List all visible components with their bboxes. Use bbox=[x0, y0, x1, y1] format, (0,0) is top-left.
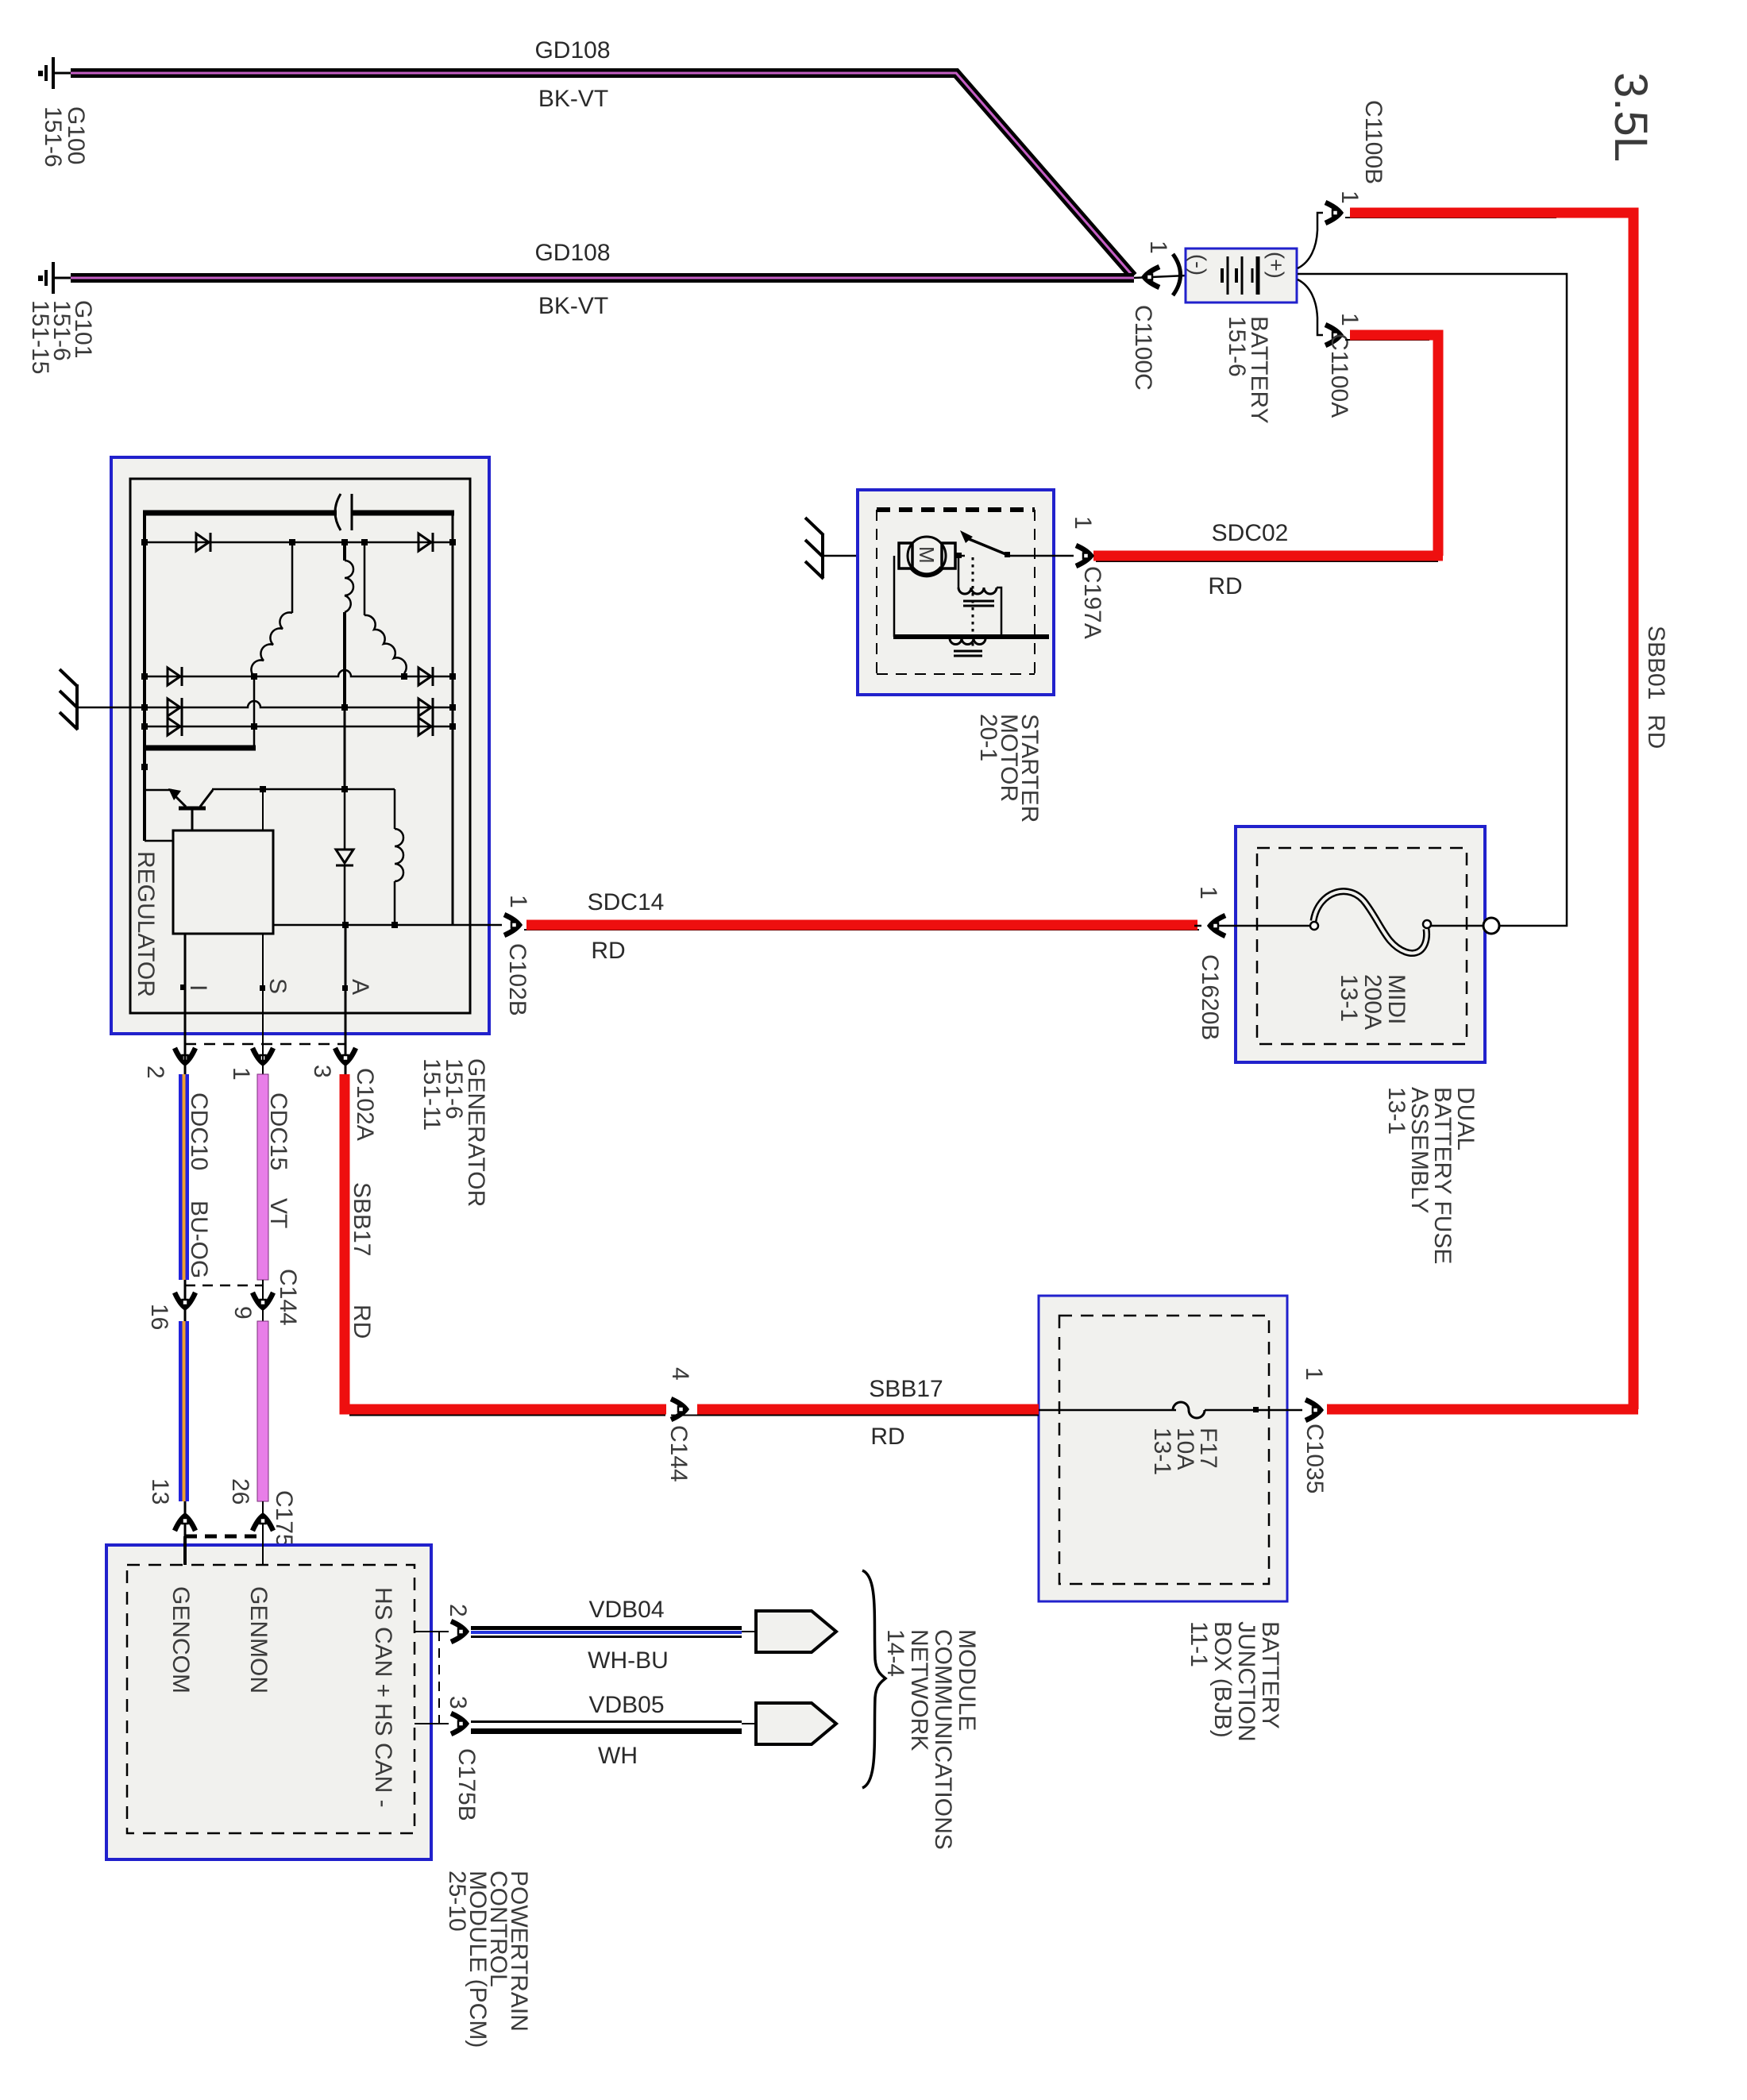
junction dots row2 bbox=[141, 673, 456, 680]
wire SDC14 RD (generator to MIDI) bbox=[524, 925, 1201, 930]
junction node (motor out) bbox=[956, 553, 962, 558]
pin A wire bbox=[345, 925, 347, 1074]
svg-text:CDC10: CDC10 bbox=[186, 1092, 212, 1170]
diode D6 bbox=[418, 698, 433, 717]
diode D3 bbox=[168, 667, 182, 686]
svg-text:VDB05: VDB05 bbox=[588, 1692, 664, 1718]
connector C1100C arrow bbox=[1144, 267, 1159, 287]
PCM inner dashed box bbox=[127, 1565, 415, 1833]
stator row3 wire (hop over neutral) bbox=[146, 701, 453, 707]
svg-text:WH: WH bbox=[598, 1743, 638, 1769]
wire battery+ up to C1100B bbox=[1298, 213, 1323, 268]
svg-text:1: 1 bbox=[1070, 516, 1096, 530]
svg-text:1: 1 bbox=[1336, 313, 1363, 326]
wire GD108 BK-VT (from G101) bbox=[71, 273, 1134, 283]
wire rail to transistor emitter bbox=[145, 789, 172, 792]
MIDI inner dashed box bbox=[1257, 848, 1467, 1044]
fuse F17 10A element bbox=[1039, 1402, 1302, 1418]
svg-text:SBB01: SBB01 bbox=[1643, 626, 1669, 699]
svg-text:C175B: C175B bbox=[453, 1748, 480, 1821]
motor M1 (starter) bbox=[899, 537, 955, 575]
diode D7 bbox=[168, 717, 182, 736]
solenoid switch blade bbox=[960, 530, 1010, 557]
svg-text:C102A: C102A bbox=[352, 1068, 378, 1141]
wire battery+ down to C1100A bbox=[1298, 279, 1323, 335]
regulator box U1 bbox=[173, 830, 273, 934]
svg-text:GD108: GD108 bbox=[534, 37, 610, 64]
svg-text:(+): (+) bbox=[1264, 252, 1288, 279]
svg-text:C1100C: C1100C bbox=[1130, 305, 1156, 391]
junction dots A line bbox=[342, 922, 398, 928]
wire S line (under regulator box) bbox=[262, 789, 264, 1074]
wire regulator output A line bbox=[273, 924, 453, 927]
svg-text:2: 2 bbox=[142, 1065, 168, 1079]
connector C1100B arrow bbox=[1325, 202, 1340, 223]
wire GENCOM stub bbox=[183, 1536, 187, 1565]
connector C102B arrow bbox=[504, 915, 519, 935]
stator winding L2 (center) bbox=[345, 542, 353, 791]
field winding L4 bbox=[395, 789, 403, 925]
connector C175B dashed vertical bbox=[438, 1632, 440, 1724]
svg-text:BK-VT: BK-VT bbox=[538, 293, 608, 319]
svg-text:F1710A13-1: F1710A13-1 bbox=[1149, 1428, 1221, 1475]
wire ground into generator (row3) bbox=[77, 707, 146, 709]
ground G101 bbox=[38, 262, 71, 294]
wire collector line bbox=[212, 788, 395, 791]
connector arrow pin13 (C175E) bbox=[175, 1516, 195, 1531]
generator box bbox=[111, 457, 489, 1034]
wire CDC15 VT segment 2 bbox=[257, 1321, 268, 1536]
svg-text:C1100B: C1100B bbox=[1360, 100, 1386, 184]
diode D9 (field) bbox=[336, 789, 353, 925]
connector arrow pin3 (C175B) bbox=[451, 1713, 466, 1734]
svg-text:RD: RD bbox=[1643, 715, 1669, 749]
wire B+ exit to C102B bbox=[453, 924, 502, 927]
svg-text:2: 2 bbox=[445, 1604, 471, 1617]
starter inner dashed box bbox=[877, 510, 1035, 674]
svg-text:I: I bbox=[185, 984, 211, 991]
wire CDC10 BU-OG segment 2 bbox=[179, 1321, 189, 1536]
ground (starter motor) bbox=[805, 518, 823, 579]
wire RD battery to starter (corner) bbox=[1345, 335, 1438, 556]
wire pin2 (HS CAN +) bbox=[415, 1631, 449, 1632]
stator row1 wire bbox=[145, 541, 453, 544]
stator winding L1 (left) bbox=[251, 542, 292, 676]
PCM box bbox=[106, 1545, 431, 1859]
solenoid hold-in coil bbox=[950, 638, 985, 656]
svg-text:BU-OG: BU-OG bbox=[186, 1200, 212, 1278]
svg-text:C144: C144 bbox=[275, 1269, 301, 1326]
svg-text:RD: RD bbox=[591, 938, 625, 964]
ground G100 bbox=[38, 57, 71, 89]
svg-text:RD: RD bbox=[870, 1424, 904, 1450]
wire CDC10 BU-OG segment 1 bbox=[179, 1048, 189, 1280]
svg-text:26: 26 bbox=[227, 1478, 253, 1505]
solenoid pull-in coil bbox=[958, 556, 1001, 635]
wire to battery negative bbox=[1134, 276, 1186, 278]
connector C1035 arrow bbox=[1305, 1400, 1321, 1420]
svg-text:3.5L: 3.5L bbox=[1605, 72, 1656, 162]
svg-text:SDC14: SDC14 bbox=[588, 889, 665, 915]
svg-text:1: 1 bbox=[228, 1067, 254, 1081]
connector C1100C arc bbox=[1173, 254, 1181, 295]
battery junction box (BJB) bbox=[1039, 1296, 1287, 1601]
junction dots row3 bbox=[141, 704, 456, 711]
svg-text:SDC02: SDC02 bbox=[1212, 520, 1289, 546]
svg-text:(-): (-) bbox=[1186, 254, 1210, 276]
wire VDB04 WH-BU bbox=[471, 1626, 758, 1638]
svg-text:WH-BU: WH-BU bbox=[588, 1647, 669, 1674]
neutral vertical wire bbox=[253, 676, 256, 748]
starter motor box bbox=[858, 490, 1054, 695]
svg-text:RD: RD bbox=[349, 1304, 375, 1339]
svg-text:C197A: C197A bbox=[1079, 566, 1105, 639]
connector arrow pin1 bbox=[253, 1048, 273, 1063]
connector arrow pin9 (C144) bbox=[253, 1293, 273, 1308]
junction dot on rail bbox=[141, 764, 148, 770]
BJB inner dashed box bbox=[1059, 1316, 1269, 1584]
svg-text:3: 3 bbox=[445, 1696, 471, 1709]
wire SBB17 RD (C144 to BJB) bbox=[671, 1409, 1039, 1416]
svg-text:SBB17: SBB17 bbox=[869, 1376, 943, 1402]
MIDI fuse box (dual battery fuse assembly) bbox=[1236, 827, 1485, 1062]
connector C144 pin4 arrow bbox=[671, 1399, 686, 1420]
stator row4 wire bbox=[145, 726, 453, 728]
connector arrow pin26 (C175E) bbox=[253, 1516, 273, 1531]
svg-text:C1620B: C1620B bbox=[1197, 954, 1223, 1040]
svg-text:GD108: GD108 bbox=[534, 240, 610, 266]
battery B1 box bbox=[1186, 249, 1297, 302]
generator inner box bbox=[130, 479, 470, 1013]
generator top bus (thick) with capacitor gap bbox=[143, 511, 454, 516]
svg-text:CDC15: CDC15 bbox=[265, 1092, 291, 1170]
capacitor C (suppression) bbox=[335, 494, 352, 530]
svg-text:A: A bbox=[347, 979, 373, 995]
connector arrow pin2 (C175B) bbox=[451, 1621, 466, 1642]
connector arrow pin2 bbox=[175, 1048, 195, 1063]
svg-text:VDB04: VDB04 bbox=[588, 1597, 664, 1623]
svg-text:M: M bbox=[915, 546, 939, 564]
svg-text:SBB17: SBB17 bbox=[349, 1182, 375, 1256]
wire motor left to bus bbox=[893, 556, 896, 637]
connector arrow pin16 (C144) bbox=[175, 1293, 195, 1308]
svg-text:1: 1 bbox=[1336, 191, 1363, 204]
svg-text:3: 3 bbox=[309, 1065, 335, 1078]
wire rail to regulator bbox=[145, 840, 173, 842]
wire SBB01 RD (battery to BJB) bbox=[1345, 213, 1633, 1409]
svg-text:BK-VT: BK-VT bbox=[538, 86, 608, 112]
svg-text:C1035: C1035 bbox=[1302, 1424, 1328, 1493]
connector C175E bold dashed tie line bbox=[185, 1535, 263, 1539]
svg-text:REGULATOR: REGULATOR bbox=[133, 851, 159, 997]
svg-text:4: 4 bbox=[667, 1367, 693, 1381]
starter bottom bus (thick) bbox=[893, 634, 1049, 639]
svg-text:1: 1 bbox=[1145, 241, 1171, 254]
pin A dot bbox=[342, 985, 348, 991]
connector arrow pin3 (C102A) bbox=[335, 1048, 356, 1063]
network brace bbox=[862, 1570, 885, 1788]
off-page arrow (VDB05) bbox=[756, 1703, 836, 1744]
svg-text:HS CAN +: HS CAN + bbox=[370, 1587, 396, 1697]
wire SBB17 RD (generator C102A down and right) bbox=[345, 1074, 666, 1416]
diode D5 bbox=[168, 698, 182, 717]
connector C1100A arrow bbox=[1325, 325, 1340, 345]
stator row2 wire (hop over center) bbox=[145, 670, 453, 676]
svg-text:MIDI200A13-1: MIDI200A13-1 bbox=[1336, 974, 1410, 1030]
svg-text:GENMON: GENMON bbox=[245, 1586, 272, 1693]
connector C1620B arrow bbox=[1210, 915, 1225, 936]
wire CDC15 VT segment 1 bbox=[257, 1048, 268, 1280]
wire VDB05 WH bbox=[471, 1720, 758, 1734]
svg-text:C102B: C102B bbox=[504, 943, 530, 1016]
svg-text:HS CAN -: HS CAN - bbox=[370, 1703, 396, 1808]
wire SDC02 RD bbox=[1093, 556, 1443, 561]
svg-text:RD: RD bbox=[1208, 573, 1242, 599]
wire RD (C1035 to SBB01) bbox=[1327, 1404, 1638, 1415]
connector C197A arrow bbox=[1076, 545, 1091, 566]
svg-text:C1100A: C1100A bbox=[1326, 333, 1352, 418]
svg-text:G100151-6: G100151-6 bbox=[40, 106, 89, 168]
junction dots collector line bbox=[260, 786, 348, 792]
svg-text:1: 1 bbox=[1301, 1367, 1327, 1381]
pin S wire dot bbox=[180, 984, 186, 990]
svg-text:VT: VT bbox=[265, 1198, 291, 1228]
svg-text:C144: C144 bbox=[665, 1425, 692, 1482]
pin I wire bbox=[184, 934, 187, 1074]
connector C102A dashed tie line bbox=[185, 1043, 345, 1046]
transistor Q1 (regulator output stage) bbox=[168, 788, 213, 830]
diode D1 bbox=[196, 533, 210, 552]
generator bottom bus (thick) bbox=[143, 746, 256, 751]
wire motor to switch bbox=[955, 555, 965, 557]
wire switch to C197A bbox=[1008, 555, 1074, 557]
ground (generator) bbox=[60, 669, 78, 730]
svg-text:9: 9 bbox=[229, 1306, 256, 1320]
svg-text:S: S bbox=[264, 978, 291, 994]
wire GD108 BK-VT (from G100) bbox=[71, 73, 1133, 276]
MIDI output terminal circle bbox=[1483, 918, 1499, 934]
wire GENMON stub bbox=[262, 1536, 264, 1565]
connector C144 dashed tie line bbox=[185, 1285, 263, 1287]
generator left rail bbox=[143, 511, 146, 841]
battery cells bbox=[1222, 256, 1258, 295]
generator B+ right rail bbox=[452, 511, 454, 925]
fuse MIDI 200A element bbox=[1213, 892, 1484, 954]
junction dots row1 bbox=[141, 539, 456, 545]
svg-text:1: 1 bbox=[1195, 886, 1221, 900]
pin S dot bbox=[260, 985, 265, 991]
svg-text:13: 13 bbox=[147, 1478, 173, 1505]
junction dots row4 bbox=[141, 723, 456, 730]
diode D8 bbox=[418, 717, 433, 736]
svg-text:1: 1 bbox=[505, 895, 531, 908]
diode D4 bbox=[418, 667, 433, 686]
wire ground to starter motor bbox=[823, 555, 900, 557]
svg-text:16: 16 bbox=[146, 1304, 172, 1330]
stator winding L3 (right) bbox=[364, 542, 407, 673]
off-page arrow (VDB04) bbox=[756, 1611, 836, 1652]
wire pin3 (HS CAN -) bbox=[415, 1723, 449, 1724]
diode D2 bbox=[418, 533, 433, 552]
switch actuator dotted link bbox=[972, 557, 974, 649]
svg-text:GENCOM: GENCOM bbox=[168, 1586, 194, 1693]
wire stubs at C144 bbox=[185, 1280, 263, 1321]
wire battery+ to MIDI output (thin) bbox=[1298, 274, 1567, 926]
